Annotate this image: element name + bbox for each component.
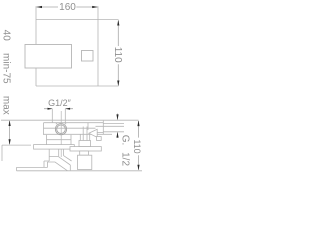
outlet pipe right: top — [103, 123, 124, 125]
dim 110 bottom arrow — [117, 81, 119, 87]
G1/2 dim left arrow — [48, 108, 53, 110]
small dim right bottom stem — [117, 133, 119, 138]
dim 160 arrow left — [36, 6, 42, 8]
shower outlet nut box — [79, 141, 91, 147]
centerline vertical — [60, 111, 62, 157]
G1/2 dim tails — [44, 108, 73, 110]
outlet pipe right: bottom — [103, 131, 124, 133]
dim 110 (bottom) bottom arrow — [137, 165, 139, 171]
lower box under cartridge — [47, 135, 72, 145]
valve body right edge — [102, 121, 104, 135]
valve body top edge — [44, 122, 104, 124]
dim 110 (top view) line — [117, 21, 119, 86]
small dim right bottom arrow (up) — [116, 132, 118, 138]
plate bottom line — [36, 85, 119, 87]
svg-text:110: 110 — [112, 47, 123, 63]
bottom line of body — [17, 170, 143, 172]
diverter cone — [89, 129, 97, 137]
wall line (finished wall) — [1, 119, 139, 121]
handle lever slant bottom — [59, 157, 71, 165]
dim 110 (bottom) top arrow — [137, 120, 139, 126]
valve body bottom edge — [44, 133, 113, 135]
dim 40min-75max line — [9, 121, 11, 144]
G1/2 extension lines — [52, 109, 65, 123]
outlet block — [78, 155, 92, 169]
diverter square — [82, 51, 94, 62]
dim 160 arrow right — [92, 6, 98, 8]
base bar top — [17, 162, 48, 167]
shower outlet neck verticals — [80, 127, 89, 141]
valve body mid line — [44, 127, 96, 129]
handle lever slant top — [64, 156, 72, 161]
svg-text:G. 1/2: G. 1/2 — [119, 135, 130, 167]
nut corner tick left — [56, 123, 58, 125]
plate left edge / extension line — [35, 6, 37, 86]
svg-text:G1/2″: G1/2″ — [48, 98, 72, 108]
small dim right top arrow (down) — [116, 114, 118, 120]
svg-text:40 min-75 max: 40 min-75 max — [1, 30, 12, 115]
cartridge circle inner — [57, 125, 66, 134]
handle escutcheon left edge — [44, 149, 49, 167]
small dim right (outlet) top stem — [117, 114, 119, 120]
escutcheon band B — [70, 147, 101, 151]
dim 40min-75max bottom arrow — [9, 139, 11, 145]
pipe inner line — [96, 125, 125, 127]
G1/2 dim right arrow — [65, 108, 70, 110]
wall line 2 (rough wall) — [2, 144, 31, 146]
handle stem — [49, 149, 63, 156]
dim 160 line — [37, 6, 98, 8]
left end vertical — [1, 145, 3, 161]
base bar left edge — [16, 167, 18, 170]
plate top line — [36, 19, 119, 21]
plate right edge / extension line — [97, 6, 99, 86]
svg-text:160: 160 — [59, 2, 76, 13]
valve body left edge — [43, 123, 45, 135]
svg-text:110: 110 — [132, 139, 142, 153]
dim 110 (bottom view) line — [138, 121, 140, 170]
outlet connector below band B — [80, 151, 89, 155]
handle wedge step — [48, 162, 68, 171]
small notch right of body — [97, 137, 102, 141]
spout box — [25, 45, 72, 69]
cone base line — [97, 132, 103, 134]
dim 110 top arrow — [117, 20, 119, 26]
dim 40min-75max top arrow — [9, 120, 11, 126]
cartridge circle outer — [55, 124, 66, 135]
body section divider — [87, 123, 89, 130]
lower box mid line — [47, 139, 72, 141]
escutcheon band A — [34, 145, 75, 150]
nut corner tick right — [65, 123, 67, 125]
handle lever tip — [69, 165, 71, 170]
